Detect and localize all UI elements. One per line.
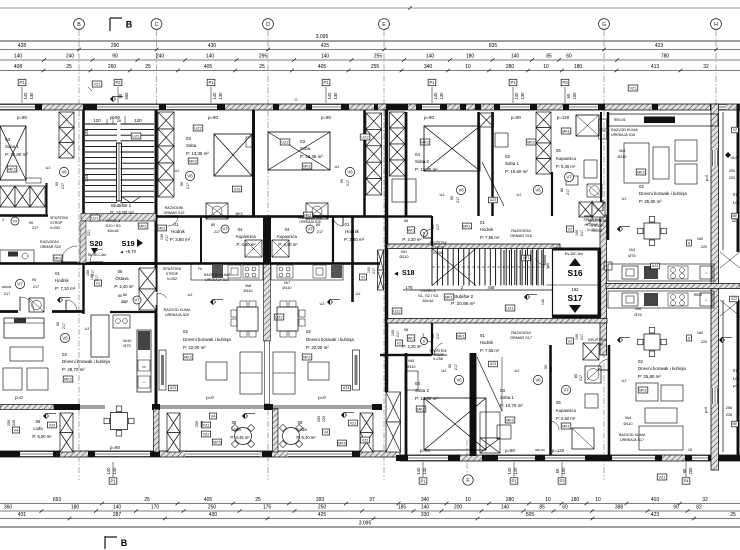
wall pier bottom x=585	[585, 455, 612, 461]
svg-text:140: 140	[511, 54, 520, 60]
svg-text:140: 140	[14, 54, 23, 60]
dining table DE	[277, 307, 298, 331]
svg-text:90: 90	[112, 54, 118, 60]
door hodnik-living	[20, 297, 34, 311]
wall pier top x=341	[341, 104, 349, 110]
exterior wall bottom right	[400, 455, 740, 461]
svg-text:82: 82	[696, 505, 702, 511]
svg-text:Dnevni boravak i kuhinja: Dnevni boravak i kuhinja	[638, 366, 686, 371]
svg-text:S20: S20	[89, 239, 102, 248]
svg-text:P: 25,80 m²: P: 25,80 m²	[639, 199, 662, 204]
svg-text:MK2: MK2	[64, 377, 72, 381]
svg-text:90: 90	[682, 468, 687, 473]
svg-text:90: 90	[56, 322, 60, 326]
svg-text:Ø75: Ø75	[628, 254, 635, 258]
svg-text:220: 220	[729, 176, 735, 180]
svg-text:S17: S17	[567, 293, 582, 303]
wall pier bottom x=482	[482, 455, 498, 461]
svg-text:388: 388	[615, 505, 624, 511]
svg-text:180: 180	[466, 54, 475, 60]
wall wardrobe east	[46, 183, 48, 214]
bed CD	[214, 134, 252, 176]
svg-text:UZ2: UZ2	[275, 315, 282, 319]
svg-text:403: 403	[651, 497, 660, 503]
wall pier top x=530	[530, 104, 537, 110]
grid line C	[156, 30, 158, 110]
wc bottom walls	[380, 354, 432, 356]
svg-text:UZ1: UZ1	[91, 216, 98, 220]
svg-text:Hodnik: Hodnik	[345, 229, 359, 234]
svg-text:140: 140	[541, 299, 545, 305]
svg-text:250: 250	[318, 505, 327, 511]
svg-text:10: 10	[465, 64, 471, 70]
svg-text:217: 217	[4, 292, 10, 296]
svg-text:06: 06	[404, 327, 409, 332]
svg-text:140: 140	[433, 92, 438, 100]
svg-text:780: 780	[661, 54, 670, 60]
svg-text:217: 217	[549, 366, 553, 372]
svg-text:226: 226	[726, 413, 732, 417]
svg-text:S18: S18	[402, 270, 415, 277]
svg-text:10: 10	[465, 497, 471, 503]
svg-text:04: 04	[238, 227, 243, 232]
svg-text:408: 408	[14, 64, 23, 70]
wall x83 stairwell left	[82, 110, 85, 263]
svg-text:3.095: 3.095	[359, 521, 372, 527]
label P3	[558, 478, 566, 484]
svg-text:217: 217	[456, 197, 460, 203]
svg-text:03: 03	[500, 388, 505, 393]
svg-text:V4: V4	[14, 428, 19, 432]
kitchen row top	[608, 264, 714, 281]
svg-text:Stubište 1: Stubište 1	[111, 203, 132, 208]
grid bubble E	[379, 19, 390, 30]
svg-text:P1: P1	[19, 80, 25, 85]
svg-text:217: 217	[454, 364, 458, 370]
label P2	[114, 79, 122, 85]
svg-text:130: 130	[439, 92, 444, 100]
kitchen band CD	[191, 263, 263, 280]
column right of stair1	[158, 112, 174, 129]
svg-text:448: 448	[488, 285, 496, 290]
label VZ1	[628, 85, 638, 91]
svg-text:MK1: MK1	[139, 224, 147, 228]
svg-text:06: 06	[36, 419, 41, 424]
level mark stair window	[110, 96, 115, 101]
svg-text:217: 217	[122, 300, 128, 304]
mirror party wall kitchens	[606, 284, 740, 289]
wall y215 left	[0, 214, 48, 217]
sofa set top right	[624, 143, 649, 183]
svg-text:P: 28,70 m²: P: 28,70 m²	[62, 367, 85, 372]
landing wall S20	[84, 262, 156, 265]
svg-text:04: 04	[415, 152, 420, 157]
loggia X pier 1	[60, 413, 73, 433]
svg-text:VZ1: VZ1	[630, 86, 637, 90]
svg-text:217: 217	[396, 331, 400, 337]
svg-text:217: 217	[61, 183, 65, 189]
svg-text:P: 22,00 m²: P: 22,00 m²	[306, 345, 329, 350]
svg-text:P: 2,40 m²: P: 2,40 m²	[114, 284, 134, 289]
bed DE	[268, 132, 330, 170]
svg-text:80: 80	[574, 374, 578, 378]
right neighbor wall line	[722, 112, 724, 250]
svg-text:MK2: MK2	[8, 167, 16, 171]
grid line F	[466, 440, 468, 475]
top overall dimension line	[0, 7, 740, 9]
svg-text:02: 02	[638, 359, 643, 364]
svg-text:2: 2	[2, 218, 4, 222]
svg-text:VZ1: VZ1	[94, 82, 101, 86]
svg-text:160: 160	[697, 237, 703, 241]
svg-text:UZ3: UZ3	[490, 198, 497, 202]
bottom dim row 2	[0, 510, 740, 512]
svg-text:C: C	[155, 22, 159, 28]
svg-text:UJ: UJ	[335, 164, 340, 169]
svg-text:REN-06: REN-06	[614, 118, 626, 122]
svg-text:06: 06	[118, 269, 123, 274]
svg-text:P: 4,90 m²: P: 4,90 m²	[278, 242, 298, 247]
svg-text:130: 130	[333, 92, 338, 100]
svg-text:p=0: p=0	[15, 395, 23, 400]
svg-text:130: 130	[218, 92, 223, 100]
svg-text:25: 25	[259, 64, 265, 70]
svg-text:80: 80	[560, 188, 564, 192]
loggia inner wall segments	[0, 405, 54, 410]
grid bubble G	[599, 19, 610, 30]
svg-text:15: 15	[688, 448, 692, 452]
svg-text:VZ2: VZ2	[203, 432, 210, 436]
svg-text:240: 240	[156, 54, 165, 60]
dining table bottom right	[644, 334, 660, 350]
radiator CD	[159, 350, 166, 390]
wall pier top x=652	[652, 104, 658, 110]
svg-text:STROP: STROP	[586, 223, 598, 227]
svg-text:431: 431	[18, 512, 27, 518]
svg-text:182: 182	[572, 287, 580, 292]
wall pier bottom x=396	[396, 455, 408, 461]
armchair DE	[308, 362, 329, 380]
svg-text:RAZVODNI: RAZVODNI	[165, 206, 184, 210]
door landing S20	[90, 249, 103, 262]
bed left	[0, 126, 26, 180]
svg-text:217: 217	[580, 230, 584, 236]
staircase Stubiste 1	[85, 124, 154, 202]
svg-text:10: 10	[543, 64, 549, 70]
svg-text:V7: V7	[222, 227, 228, 232]
svg-text:221: 221	[87, 230, 91, 236]
svg-text:UJ: UJ	[175, 168, 180, 173]
svg-text:ORMAR S16: ORMAR S16	[510, 234, 532, 238]
wall pier bottom x=150	[150, 451, 160, 457]
top dim row 1	[0, 49, 740, 51]
wall pier top x=710	[710, 104, 718, 110]
svg-text:UZ1: UZ1	[506, 306, 513, 310]
loggia rail bottom x=288	[288, 451, 355, 457]
svg-text:MK: MK	[732, 422, 738, 426]
wardrobe soba1 bottom	[480, 412, 500, 438]
svg-text:V6: V6	[456, 378, 462, 383]
svg-text:P: 4,90 m²: P: 4,90 m²	[236, 242, 256, 247]
wall pier top x=475	[475, 104, 481, 110]
svg-text:Vk5: Vk5	[408, 359, 415, 363]
svg-text:P: 5,50 m²: P: 5,50 m²	[556, 416, 576, 421]
right edge beds	[720, 252, 740, 316]
svg-text:UREĐAJA S17: UREĐAJA S17	[620, 438, 644, 442]
svg-text:Ø110: Ø110	[406, 365, 415, 369]
top dim row 2	[0, 59, 740, 61]
svg-text:217: 217	[214, 230, 220, 234]
svg-text:80: 80	[431, 225, 435, 229]
stair2 block bottom wall	[387, 319, 607, 324]
wall y311 left	[0, 310, 18, 313]
svg-text:UREĐAJA S18: UREĐAJA S18	[299, 220, 320, 224]
wall pier bottom x=352	[352, 451, 360, 457]
svg-text:693: 693	[53, 497, 62, 503]
shower top	[576, 115, 599, 136]
svg-text:p=0: p=0	[705, 175, 709, 181]
svg-text:217: 217	[317, 230, 323, 234]
svg-text:217: 217	[186, 183, 190, 189]
svg-text:220: 220	[12, 420, 16, 426]
sofa left	[4, 318, 44, 338]
bed Soba2 bottom	[424, 398, 486, 450]
svg-text:01: 01	[345, 222, 350, 227]
WC bottom	[407, 335, 415, 341]
svg-text:MK2: MK2	[639, 388, 647, 392]
wc top walls	[380, 215, 432, 217]
svg-text:P: 10,70 m²: P: 10,70 m²	[500, 403, 523, 408]
middle bottom V2	[395, 340, 402, 346]
svg-text:Soba: Soba	[186, 143, 197, 148]
wall pier top x=306	[306, 104, 312, 110]
right wall window top	[712, 150, 719, 166]
svg-text:RAZVODNI: RAZVODNI	[511, 331, 531, 335]
svg-text:SPUŠTEN: SPUŠTEN	[588, 337, 606, 342]
svg-text:220: 220	[701, 245, 707, 249]
svg-text:UZ3: UZ3	[234, 187, 241, 191]
column x481	[480, 113, 494, 127]
wall pier bottom x=53	[53, 451, 60, 457]
wall x604 elevator east	[600, 215, 607, 355]
wall pier bottom x=655	[655, 455, 662, 461]
bottom dim row 3	[0, 518, 740, 520]
wall x601 bath east	[600, 112, 602, 216]
svg-text:06: 06	[232, 420, 237, 425]
svg-text:P4: P4	[683, 479, 689, 484]
svg-text:217: 217	[580, 334, 584, 340]
wall pier bottom x=448	[448, 455, 460, 461]
svg-text:205: 205	[688, 467, 693, 475]
svg-text:140: 140	[426, 54, 435, 60]
window in top wall x=310	[310, 104, 343, 110]
grid bubble D	[263, 19, 274, 30]
wall right edge	[737, 104, 740, 252]
svg-text:Vk4: Vk4	[625, 416, 632, 420]
svg-text:Sb-35-C-6m: Sb-35-C-6m	[88, 253, 107, 257]
kitchen S20 counter	[91, 315, 109, 357]
svg-text:Ø75: Ø75	[634, 313, 641, 317]
window bottom wall x=408	[408, 455, 448, 461]
svg-text:MK5: MK5	[338, 441, 345, 445]
svg-text:UZ1: UZ1	[523, 256, 530, 260]
svg-text:250: 250	[208, 505, 217, 511]
svg-text:P3: P3	[562, 80, 568, 85]
svg-text:UJ: UJ	[85, 327, 90, 331]
sofa CD	[240, 352, 262, 394]
svg-text:90: 90	[340, 179, 344, 183]
svg-text:P: 10,60 m²: P: 10,60 m²	[505, 169, 528, 174]
svg-text:140: 140	[507, 467, 512, 475]
wall y263 mid band	[0, 262, 380, 265]
svg-text:340: 340	[424, 64, 433, 70]
svg-text:02: 02	[639, 184, 644, 189]
svg-text:10: 10	[545, 497, 551, 503]
svg-text:Stubište 2: Stubište 2	[453, 294, 474, 299]
svg-text:Hodnik: Hodnik	[480, 340, 494, 345]
grid bubble C	[151, 19, 162, 30]
svg-text:428: 428	[18, 43, 27, 49]
loggia rail bottom x=95	[95, 451, 150, 457]
svg-text:+8,6: +8,6	[730, 156, 738, 160]
wall x406 soba2 west bottom	[405, 353, 408, 455]
svg-text:MK1: MK1	[463, 224, 470, 228]
svg-text:280: 280	[506, 64, 515, 70]
S box 160 220 top	[687, 240, 692, 246]
svg-text:P: 13,35 m²: P: 13,35 m²	[186, 151, 209, 156]
svg-text:MK5: MK5	[213, 440, 220, 444]
label P1	[510, 478, 518, 484]
svg-text:VZ: VZ	[733, 128, 737, 132]
svg-text:G: G	[602, 22, 606, 28]
kitchen row bottom	[608, 291, 714, 308]
wall pier bottom x=708	[708, 455, 740, 461]
wall pier top x=460	[460, 104, 466, 110]
svg-text:RAZVODNI: RAZVODNI	[511, 229, 531, 233]
svg-text:32: 32	[702, 497, 708, 503]
svg-text:90: 90	[55, 182, 59, 186]
svg-text:240: 240	[66, 54, 75, 60]
svg-text:360: 360	[4, 505, 13, 511]
svg-text:140: 140	[421, 505, 430, 511]
svg-text:SPUŠTENI: SPUŠTENI	[163, 266, 181, 271]
svg-text:p=90: p=90	[208, 115, 218, 120]
svg-text:130: 130	[422, 467, 427, 475]
sofa set bottom right	[636, 383, 658, 401]
svg-text:VZ3: VZ3	[49, 423, 56, 427]
svg-text:Dnevni boravak i kuhinja: Dnevni boravak i kuhinja	[62, 359, 110, 364]
svg-text:h=258: h=258	[433, 251, 443, 255]
svg-text:180: 180	[71, 505, 80, 511]
svg-text:80: 80	[211, 223, 215, 227]
svg-text:MK1: MK1	[562, 129, 570, 133]
svg-text:V6: V6	[187, 174, 193, 179]
svg-text:835: 835	[489, 43, 498, 49]
svg-text:130: 130	[29, 92, 34, 100]
dining table CD	[237, 307, 258, 331]
svg-text:h=258: h=258	[433, 357, 443, 361]
svg-text:Lođa: Lođa	[33, 426, 43, 431]
svg-text:UJ: UJ	[320, 301, 325, 306]
shelf left	[26, 178, 41, 183]
wall x492	[491, 112, 494, 216]
window in top wall x=420	[420, 104, 442, 110]
label P1	[428, 79, 436, 85]
svg-text:90: 90	[673, 505, 679, 511]
svg-text:217: 217	[436, 333, 440, 339]
svg-text:V4: V4	[324, 430, 329, 434]
svg-text:430: 430	[209, 512, 218, 518]
mk boxes right edge	[732, 213, 739, 219]
svg-text:05: 05	[556, 400, 561, 405]
svg-text:UJ: UJ	[188, 292, 193, 297]
svg-text:B: B	[121, 538, 128, 548]
svg-text:VZ1: VZ1	[350, 421, 357, 425]
wall pier top x=386	[386, 104, 408, 110]
svg-text:MK2: MK2	[189, 159, 197, 163]
svg-text:Ø110: Ø110	[617, 155, 626, 159]
wall x406 soba2 west top	[405, 112, 408, 217]
svg-text:UJ: UJ	[356, 291, 361, 296]
svg-text:P1: P1	[511, 479, 517, 484]
wall x609 bottom	[608, 345, 611, 455]
svg-text:217: 217	[62, 323, 66, 329]
label P3	[561, 79, 569, 85]
svg-text:ORMAR S19: ORMAR S19	[164, 211, 185, 215]
wall x386 party E	[385, 109, 389, 392]
svg-text:UZ1: UZ1	[132, 134, 139, 138]
svg-text:180: 180	[571, 497, 580, 503]
svg-text:217: 217	[436, 224, 440, 230]
svg-text:UZ2: UZ2	[361, 135, 368, 139]
wall pier top x=563	[563, 104, 569, 110]
svg-text:85: 85	[539, 505, 545, 511]
svg-text:RAZVOD KLIMA: RAZVOD KLIMA	[619, 433, 646, 437]
svg-text:V7: V7	[566, 175, 572, 180]
svg-text:MK2: MK2	[637, 170, 645, 174]
svg-text:V6: V6	[535, 378, 541, 383]
svg-text:25: 25	[66, 64, 72, 70]
svg-text:H: H	[714, 22, 718, 28]
sofa DE	[273, 352, 295, 394]
window in top wall x=498	[498, 104, 532, 110]
svg-text:h=252: h=252	[50, 226, 60, 230]
svg-text:p=0: p=0	[318, 395, 326, 400]
wall pier bottom x=88	[88, 451, 95, 457]
svg-text:393: 393	[316, 497, 325, 503]
svg-text:250: 250	[195, 421, 199, 427]
svg-text:405: 405	[318, 64, 327, 70]
svg-text:ORMAR S17: ORMAR S17	[510, 336, 532, 340]
svg-text:MK2: MK2	[303, 355, 311, 359]
svg-text:217: 217	[579, 375, 583, 381]
svg-text:MK1: MK1	[158, 226, 165, 230]
svg-text:Ø110: Ø110	[282, 286, 291, 290]
svg-text:VZ1: VZ1	[659, 475, 666, 479]
svg-text:V6: V6	[458, 188, 464, 193]
svg-text:Ø110: Ø110	[623, 422, 632, 426]
svg-text:UREĐAJA S20: UREĐAJA S20	[165, 313, 189, 317]
wardrobe X bottom bath	[583, 343, 599, 360]
wall x156 party C	[155, 110, 158, 404]
sink bottom	[585, 394, 598, 408]
S box 160 220 bottom	[687, 335, 692, 341]
svg-text:MK1: MK1	[54, 256, 62, 260]
svg-text:onica: onica	[2, 285, 12, 289]
svg-text:330: 330	[421, 512, 430, 518]
svg-text:p=90: p=90	[110, 445, 120, 450]
svg-text:07: 07	[733, 368, 738, 373]
